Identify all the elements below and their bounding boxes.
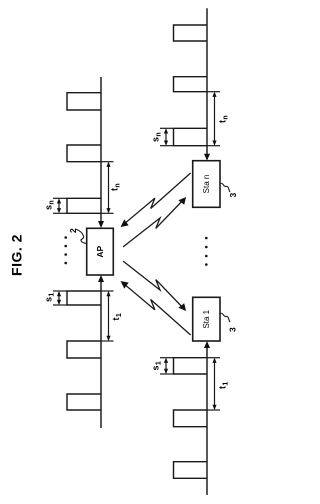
- dots above AP pulses: [64, 236, 67, 264]
- extension lines pulse D up: [53, 304, 67, 306]
- reference 2 squiggle: [76, 229, 87, 244]
- dots between station boxes: [205, 237, 208, 266]
- Sta n time axis: [174, 8, 208, 158]
- radio zigzag arrow AP to Sta 1: [123, 261, 186, 311]
- svg-text:s1: s1: [44, 292, 56, 302]
- wire axis: [206, 344, 208, 495]
- dimension arrow tn (Sta n): [212, 92, 216, 146]
- extension lines pulse D' up: [160, 373, 174, 375]
- radio zigzag arrow Sta n to AP: [121, 173, 191, 227]
- dimension arrow tn (AP axis): [106, 162, 110, 214]
- dimension arrow t1 (Sta 1): [212, 358, 216, 410]
- wire axis: [206, 8, 208, 158]
- extension lines down for tn (B,C left edges): [101, 161, 114, 163]
- arrow into AP box right side: [98, 221, 104, 228]
- svg-text:t1: t1: [218, 381, 230, 389]
- pulse F': [174, 462, 208, 479]
- Sta 1 box: [193, 297, 220, 341]
- Sta n box: [193, 161, 220, 208]
- svg-text:t1: t1: [111, 313, 123, 321]
- svg-text:3: 3: [228, 327, 238, 332]
- extension lines down t1 (D',E' right edges): [207, 357, 220, 359]
- radio zigzag arrow Sta 1 to AP: [121, 281, 191, 335]
- pulse D': [174, 358, 208, 374]
- pulse C: [67, 198, 101, 213]
- dimension arrow t1 (AP axis): [106, 291, 110, 341]
- extension lines pulse C up: [53, 212, 67, 214]
- svg-text:Sta 1: Sta 1: [202, 309, 211, 328]
- svg-text:Sta n: Sta n: [202, 175, 211, 194]
- pulse E': [174, 410, 208, 427]
- reference 3 squiggle (Sta 1): [220, 313, 230, 322]
- arrow into Sta n box: [204, 154, 210, 161]
- AP box: [87, 228, 114, 275]
- arrow into AP box left side: [98, 275, 104, 282]
- dimension arrow s1 (Sta 1): [164, 358, 168, 374]
- svg-text:AP: AP: [95, 245, 105, 257]
- pulse D: [67, 291, 101, 305]
- dimension arrow s1 (AP axis): [57, 291, 61, 305]
- svg-text:2: 2: [68, 228, 78, 233]
- extension lines down for t1 (D,E right edges): [101, 290, 114, 292]
- dimension arrow sn (Sta n): [164, 128, 168, 145]
- pulse B': [174, 77, 208, 92]
- pulse C': [174, 128, 208, 145]
- wire axis left part: [100, 278, 102, 428]
- svg-text:3: 3: [228, 193, 238, 198]
- pulse A: [67, 93, 101, 110]
- svg-text:s1: s1: [151, 361, 163, 371]
- svg-text:sn: sn: [151, 132, 163, 142]
- pulse E: [67, 341, 101, 358]
- radio zigzag arrow AP to Sta n: [123, 197, 186, 247]
- pulse B: [67, 145, 101, 162]
- Sta 1 time axis: [174, 344, 208, 495]
- extension lines down tn (B',C'): [207, 91, 220, 93]
- svg-text:FIG. 2: FIG. 2: [9, 234, 25, 276]
- svg-text:tn: tn: [218, 115, 230, 123]
- svg-text:tn: tn: [110, 183, 122, 191]
- AP time axis: [67, 77, 101, 428]
- dimension arrow sn (AP axis): [57, 198, 61, 213]
- wire axis right part: [100, 77, 102, 225]
- arrow into Sta 1 box: [204, 341, 210, 348]
- reference 3 squiggle (Sta n): [220, 183, 230, 192]
- pulse A': [174, 25, 208, 41]
- svg-text:sn: sn: [44, 200, 56, 210]
- pulse F: [67, 394, 101, 410]
- extension lines pulse C' up: [160, 145, 174, 147]
